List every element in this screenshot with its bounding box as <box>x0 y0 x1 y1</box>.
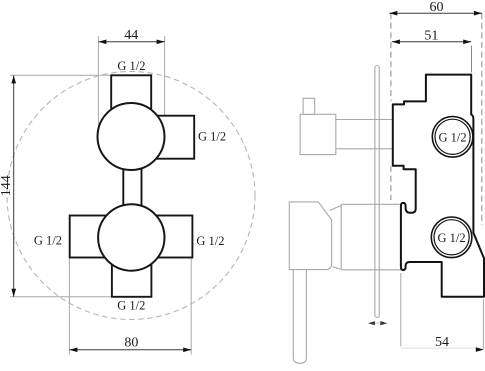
right arm of thermostat handle <box>145 116 194 159</box>
extension line 51 <box>471 46 473 73</box>
upper handle stem lines <box>336 119 394 121</box>
extension line 144 bottom <box>10 296 112 298</box>
dimension line 44 <box>98 41 164 43</box>
extension line 144 top <box>10 74 111 76</box>
dimension line 80 <box>69 349 191 351</box>
right arm of volume handle <box>148 216 192 258</box>
svg-text:54: 54 <box>435 335 449 350</box>
escutcheon plate <box>375 66 379 318</box>
left arm of volume handle <box>70 216 115 258</box>
thermostat knob circle <box>98 103 165 170</box>
extension line 54 right <box>482 299 484 349</box>
bottom arm of volume handle <box>112 237 151 297</box>
dimension line 54 (faint) <box>401 347 477 349</box>
lower G 1/2 port circle <box>431 217 472 258</box>
volume knob circle <box>98 204 164 270</box>
wall plane dashed line upper <box>390 13 392 101</box>
upper G 1/2 port circle <box>432 117 473 158</box>
dimension line 51 <box>392 41 471 43</box>
dimension line 144 <box>13 75 15 296</box>
svg-text:G 1/2: G 1/2 <box>117 298 145 312</box>
svg-text:G 1/2: G 1/2 <box>196 234 224 248</box>
upper handle knob <box>300 114 336 154</box>
lower handle cone <box>340 205 342 270</box>
extension line 44 right <box>164 36 166 128</box>
svg-text:G 1/2: G 1/2 <box>439 130 467 144</box>
svg-text:44: 44 <box>124 28 138 43</box>
top arm of thermostat handle <box>111 75 151 136</box>
svg-text:144: 144 <box>0 175 14 196</box>
svg-text:G 1/2: G 1/2 <box>198 130 226 144</box>
extension line 54 left <box>400 273 402 347</box>
svg-text:G 1/2: G 1/2 <box>438 231 466 245</box>
back plane dashed line <box>481 13 483 225</box>
valve body <box>393 75 484 297</box>
wall plane dashed line middle <box>390 166 392 200</box>
wall plate dashed circle <box>7 72 255 320</box>
extension line 80 left <box>68 259 70 355</box>
lower handle cylinder lines <box>341 203 401 205</box>
connecting stem between knobs <box>123 158 141 210</box>
lower handle block <box>289 202 331 270</box>
dimension line 60 <box>389 12 482 14</box>
svg-text:G 1/2: G 1/2 <box>117 59 145 73</box>
svg-text:60: 60 <box>430 0 444 15</box>
svg-text:80: 80 <box>124 336 138 351</box>
extension line 44 left <box>97 36 99 128</box>
extension line 80 right <box>190 259 192 355</box>
plate travel double arrow <box>371 322 384 324</box>
lower handle lever <box>293 270 306 364</box>
svg-text:51: 51 <box>424 28 438 43</box>
svg-text:G 1/2: G 1/2 <box>34 234 62 248</box>
upper handle tab <box>303 98 315 114</box>
